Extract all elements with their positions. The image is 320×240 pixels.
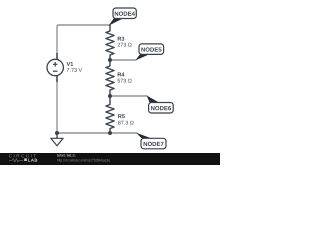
watermark logo squiggle [9,159,23,162]
label R3 value 273 ohm [118,37,132,47]
watermark logo LAB mark [24,158,27,161]
resistor R3 [106,25,114,60]
watermark bar background [0,153,220,165]
node flag NODE6 [147,96,174,114]
wire: NODE6 stub [110,95,147,97]
watermark logo CIRCUIT [9,154,36,157]
watermark info line 2 [57,159,110,162]
node R4-R5 junction [108,94,112,98]
node flag NODE5 [135,44,163,61]
watermark logo LAB [28,159,37,162]
wire: top rail with left corner [57,25,110,59]
node R5-bottom junction [108,131,112,135]
watermark info line 1 [57,154,75,157]
node flag NODE7 [136,133,166,149]
voltage source V1 [47,53,63,82]
node R3-R4 junction [108,58,112,62]
wire: left rail lower section [56,76,58,133]
label R4 value 573 ohm [118,73,132,83]
resistor R5 [106,96,114,133]
label R5 value 87.3 ohm [118,114,134,124]
resistor R4 [106,60,114,96]
wire: bottom rail [57,132,137,134]
ground [51,133,63,146]
node flag NODE4 [109,8,137,26]
label V1 value 7.73 V [67,62,83,72]
wire: NODE5 stub [110,59,136,61]
node ground junction [55,131,59,135]
